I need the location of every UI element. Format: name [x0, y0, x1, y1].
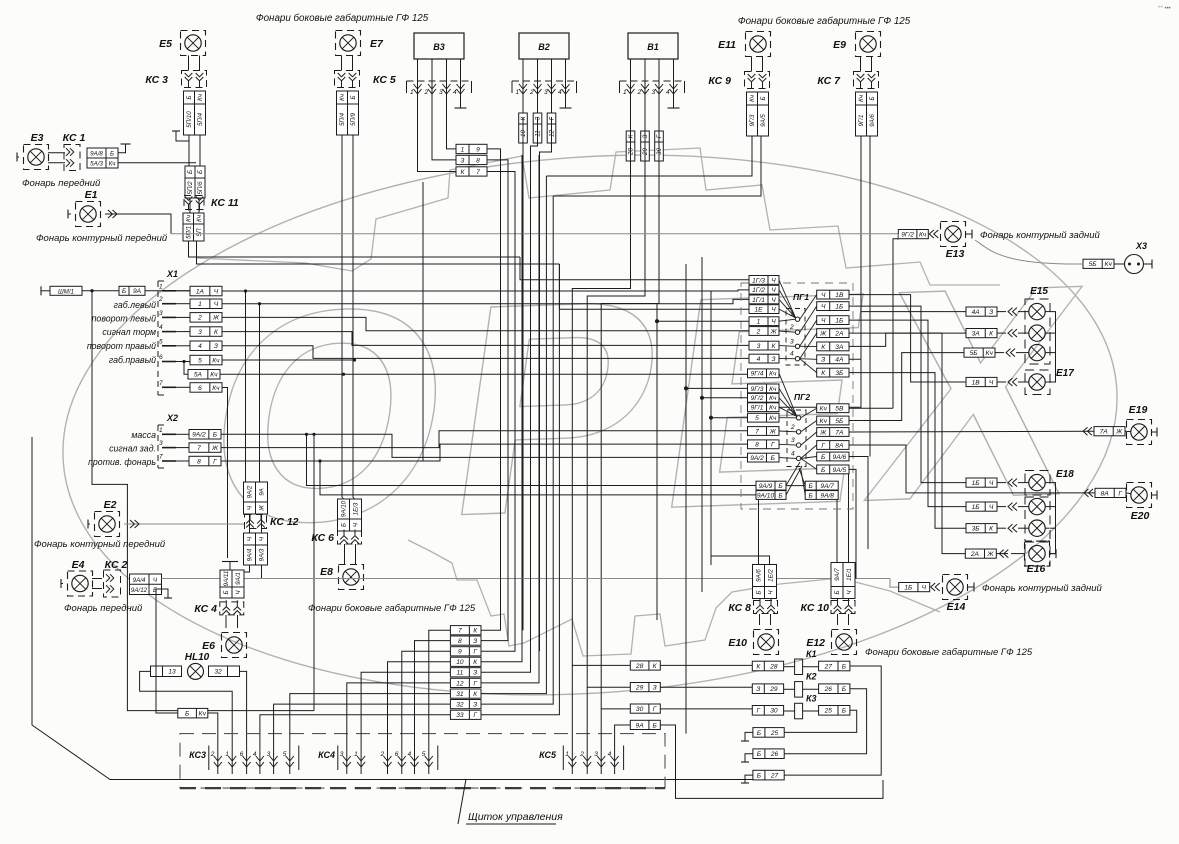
wires KC10 to E12: [838, 614, 849, 625]
dashed enclosure PG relays: [741, 283, 853, 509]
svg-text:3: 3: [594, 751, 598, 758]
svg-text:Б: Б: [185, 711, 190, 718]
svg-text:Е4: Е4: [72, 559, 85, 571]
ground stubs left of B-25 B-26 B-27: [741, 732, 753, 783]
PG2 contact group: [779, 373, 806, 466]
svg-text:2: 2: [790, 424, 795, 431]
label box 12-G under B2: [547, 113, 556, 143]
svg-text:Фонарь контурный задний: Фонарь контурный задний: [980, 230, 1100, 241]
svg-text:Ж: Ж: [212, 315, 220, 322]
svg-text:Фонари боковые габаритные ГФ 1: Фонари боковые габаритные ГФ 125: [865, 647, 1033, 658]
stack box 8-З: [450, 636, 481, 645]
svg-text:1: 1: [354, 751, 358, 758]
svg-text:4: 4: [608, 751, 612, 758]
wire KC9 columns down: [546, 136, 761, 196]
svg-text:Б: Б: [110, 151, 114, 158]
box B-27: [753, 770, 784, 780]
svg-text:32: 32: [456, 701, 464, 708]
X1 box 5A-Kch: [188, 370, 220, 380]
svg-text:Б: Б: [757, 751, 762, 758]
lamp feed 1V-Ch feed wire: [997, 381, 1050, 383]
svg-text:Ж: Ж: [819, 330, 827, 337]
svg-text:Б: Б: [197, 170, 204, 174]
svg-text:2: 2: [789, 324, 794, 331]
svg-text:4А: 4А: [972, 309, 981, 316]
svg-text:9А/10: 9А/10: [341, 500, 348, 517]
svg-text:Кч: Кч: [769, 415, 777, 422]
svg-text:5П/4: 5П/4: [197, 112, 204, 126]
table under KC3: [184, 91, 206, 135]
svg-text:Кч: Кч: [769, 371, 777, 378]
svg-text:КС 9: КС 9: [708, 75, 731, 87]
connector KC8: [728, 599, 777, 614]
svg-text:Б: Б: [834, 590, 841, 594]
svg-text:29: 29: [635, 684, 644, 691]
svg-text:З: З: [473, 638, 477, 645]
svg-text:1: 1: [461, 146, 465, 153]
lamp feed 3B-K feed wire: [997, 527, 1050, 529]
dashed box E18: [1025, 471, 1050, 496]
box Z-29: [752, 684, 783, 694]
svg-text:27: 27: [824, 663, 833, 670]
PG2 left box 9Г/3: [748, 384, 780, 393]
connector pins under B3: [407, 59, 472, 117]
svg-text:9: 9: [458, 649, 462, 656]
svg-text:7: 7: [159, 380, 163, 387]
ground under B2 pin4: [560, 94, 572, 108]
svg-text:3: 3: [757, 343, 761, 350]
bus X1 5AKch long: [220, 373, 748, 376]
svg-text:5: 5: [159, 338, 163, 345]
wires KC4 to E6: [226, 615, 238, 628]
PG2 left box 7: [748, 427, 780, 436]
T-bar above KC4: [222, 562, 238, 571]
box B-26: [753, 749, 784, 759]
watermark text OREH: [189, 221, 1110, 589]
table above KC12: [244, 482, 268, 514]
bus X2 protiv to PG2: [221, 444, 748, 461]
svg-text:8А: 8А: [835, 442, 844, 449]
svg-text:30: 30: [636, 706, 644, 713]
svg-text:3Б: 3Б: [835, 370, 844, 377]
svg-text:Ч: Ч: [771, 287, 776, 294]
table below KC11: [183, 213, 204, 241]
stack box 12-Г: [450, 678, 481, 687]
svg-text:1Б: 1Б: [835, 317, 844, 324]
connector KC4: [194, 600, 243, 615]
svg-text:поворот левый: поворот левый: [92, 314, 156, 324]
svg-text:4: 4: [453, 89, 457, 96]
bus X1 3K to PG1: [222, 332, 749, 346]
box 9A-B: [630, 720, 660, 729]
svg-text:Б: Б: [223, 590, 230, 594]
svg-text:10: 10: [520, 130, 527, 137]
wires stack boxes to pin connectors: [260, 630, 451, 743]
wire ShM to X1: [82, 290, 190, 292]
stack box 11-З: [450, 668, 481, 677]
svg-text:Г: Г: [473, 680, 477, 687]
svg-text:З: З: [771, 356, 775, 363]
HL10 left box 13: [151, 666, 182, 677]
svg-text:10: 10: [456, 659, 464, 666]
lamp feed 3B-K label box: [966, 524, 997, 533]
wire E7 to KC5: [342, 56, 353, 71]
wire K1 out to B-27: [784, 666, 881, 775]
wires B1 pins staircase down: [572, 117, 659, 709]
svg-text:9А: 9А: [133, 288, 142, 295]
lamp E15a: [1029, 303, 1045, 319]
svg-text:28: 28: [635, 663, 644, 670]
ground stub from KC2 table: [162, 589, 169, 598]
PG1 right box 1Б: [817, 302, 849, 311]
lamp feed 1B-Ch lower feed wire: [997, 506, 1050, 508]
svg-text:К2: К2: [806, 672, 817, 682]
connector KC6: [311, 530, 361, 545]
svg-text:ШМ/1: ШМ/1: [58, 288, 74, 295]
wires 28-30 boxes right to K relays: [660, 665, 752, 709]
lamp feed 4A-Z feed wire: [997, 311, 1050, 313]
PG1 left box 1Г/3: [749, 276, 779, 285]
svg-text:28: 28: [769, 663, 778, 670]
label box 28-K under B1: [626, 131, 635, 161]
svg-text:9А/1: 9А/1: [235, 572, 242, 585]
box B-9A7: [805, 481, 838, 490]
bus X1 row2: [222, 299, 749, 482]
svg-text:Е16: Е16: [1027, 563, 1046, 575]
wire E2 right to KC12: [124, 523, 244, 525]
svg-text:Е13: Е13: [946, 248, 965, 260]
svg-text:12: 12: [549, 130, 556, 137]
connector KC3: [145, 71, 206, 88]
svg-text:5: 5: [755, 415, 759, 422]
label box 10-K under B2: [519, 113, 528, 143]
svg-text:Б: Б: [821, 454, 826, 461]
wire E19 link: [1125, 428, 1157, 437]
svg-text:2А: 2А: [970, 551, 980, 558]
svg-text:Ч: Ч: [821, 303, 826, 310]
PG2 left box 8: [748, 440, 780, 449]
wires B3 pins to boxes: [418, 117, 457, 172]
svg-text:Кч: Кч: [820, 406, 828, 413]
table under KC7: [856, 92, 878, 136]
wire KC3 table down: [189, 135, 200, 166]
svg-text:7А: 7А: [1100, 429, 1109, 436]
svg-text:Е20: Е20: [1131, 510, 1150, 522]
svg-text:3: 3: [159, 440, 163, 447]
svg-text:1В: 1В: [972, 379, 981, 386]
svg-text:1Г/2: 1Г/2: [752, 287, 765, 294]
svg-text:7: 7: [197, 445, 201, 452]
PG1 right box 1В: [817, 290, 849, 299]
svg-text:5А/3: 5А/3: [90, 161, 103, 168]
box 9A9-B: [756, 481, 786, 490]
svg-text:9А/5: 9А/5: [760, 114, 767, 127]
lamp feed 3A-K feed wire: [997, 332, 1050, 334]
label box 30-G under B1: [655, 131, 664, 161]
svg-text:Кч: Кч: [196, 214, 203, 222]
svg-text:4А: 4А: [835, 357, 844, 364]
svg-text:3: 3: [340, 751, 344, 758]
svg-text:Е15: Е15: [1030, 286, 1048, 297]
svg-text:1: 1: [159, 283, 163, 290]
X1 box 2-Zh: [190, 313, 222, 323]
wire HL10 left path: [140, 671, 233, 743]
svg-text:Е5: Е5: [159, 38, 172, 50]
junction B-9A7 right: [804, 485, 806, 487]
lamp feed 5B-Kch arrows: [1006, 349, 1015, 357]
svg-text:Е10: Е10: [728, 637, 747, 649]
PG1 left box 1Г/1: [749, 295, 779, 304]
svg-text:11: 11: [535, 130, 542, 136]
svg-text:9А/2: 9А/2: [192, 432, 206, 439]
svg-text:1: 1: [757, 319, 761, 326]
svg-text:З: З: [473, 670, 477, 677]
stack box 32-З: [450, 700, 481, 709]
svg-text:З: З: [535, 116, 542, 120]
svg-text:КС 4: КС 4: [194, 603, 217, 615]
svg-text:КС 8: КС 8: [728, 602, 751, 614]
lamp feed 3A-K arrows: [1008, 329, 1017, 337]
svg-text:2: 2: [158, 296, 163, 303]
svg-text:9А/7: 9А/7: [834, 568, 841, 581]
PG2 right box 5В: [817, 404, 849, 413]
left tall wire from X2 massa: [32, 437, 753, 780]
svg-text:Ч: Ч: [771, 277, 776, 284]
svg-text:9А/8: 9А/8: [90, 151, 103, 158]
X2 box 7-Zh: [189, 443, 221, 453]
wire KC1 top to T-bar: [118, 144, 126, 153]
svg-text:3: 3: [159, 310, 163, 317]
PG1 left box 4: [749, 354, 779, 363]
bus rows to PG1 1G rows: [520, 257, 749, 309]
PG1 right box 3А: [817, 342, 849, 351]
svg-text:5П/2: 5П/2: [187, 181, 194, 195]
svg-text:Б: Б: [809, 492, 814, 499]
svg-text:против. фонарь: против. фонарь: [88, 457, 156, 467]
svg-text:1: 1: [623, 89, 627, 96]
svg-text:1Е/2: 1Е/2: [768, 569, 775, 582]
svg-text:Ж: Ж: [259, 505, 266, 512]
connector KC3 pins: [189, 744, 299, 775]
svg-text:9А/8: 9А/8: [820, 492, 834, 499]
svg-text:К1: К1: [806, 649, 817, 659]
lamp E15b: [1029, 325, 1045, 341]
svg-text:9Г/1: 9Г/1: [858, 115, 865, 127]
connector KC11: [184, 196, 239, 211]
box K-28: [752, 661, 783, 671]
lamp E20: [1127, 483, 1152, 523]
svg-text:Фонарь контурный задний: Фонарь контурный задний: [982, 583, 1102, 594]
wires KC6 to E8: [345, 544, 356, 564]
bus X2 signal zad to PG2: [221, 431, 748, 448]
dashed box Shchitok upravleniya: [180, 734, 665, 789]
svg-text:5: 5: [283, 751, 287, 758]
label box 29-Z under B1: [641, 131, 650, 161]
long gray wire E4 to E14 box: [162, 578, 891, 580]
svg-text:Ж: Ж: [769, 428, 777, 435]
svg-text:Б: Б: [341, 523, 348, 527]
svg-text:8: 8: [476, 157, 480, 164]
right bus E18 group: [1050, 483, 1056, 554]
svg-text:КС 3: КС 3: [145, 74, 168, 86]
svg-text:В1: В1: [647, 42, 659, 52]
wires KC12 to lower table: [250, 514, 262, 533]
svg-text:5П: 5П: [196, 228, 203, 236]
wires E3 to KC1: [48, 153, 65, 163]
PG2 right box 5Б: [817, 416, 849, 425]
svg-text:9А/10: 9А/10: [757, 492, 775, 499]
box 5B-Kch near X3: [1083, 259, 1114, 268]
svg-text:3: 3: [790, 338, 794, 345]
wire E16 feed: [996, 553, 1025, 555]
svg-text:11: 11: [456, 670, 463, 677]
svg-text:Б: Б: [756, 590, 763, 594]
slant links bottom PG2: [786, 462, 805, 495]
X1 box 4-Z: [190, 341, 222, 351]
junction dot protiv branch: [318, 459, 321, 462]
svg-text:сигнал торм: сигнал торм: [102, 327, 156, 337]
connector KC4 pins: [318, 744, 438, 775]
box G-30: [752, 706, 783, 716]
svg-text:1Е/3: 1Е/3: [353, 502, 360, 515]
svg-text:ПГ2: ПГ2: [794, 392, 810, 402]
svg-text:Б: Б: [842, 708, 847, 715]
svg-text:Ч: Ч: [922, 584, 927, 591]
svg-text:Ж: Ж: [986, 551, 994, 558]
svg-text:Е8: Е8: [320, 566, 333, 578]
svg-text:1Е: 1Е: [754, 306, 763, 313]
svg-text:9Г/2: 9Г/2: [901, 231, 914, 238]
wires below KC11 down: [189, 241, 560, 264]
block В3: [414, 33, 464, 59]
svg-text:4: 4: [757, 356, 761, 363]
svg-text:1: 1: [225, 751, 229, 758]
X1 box 5-Kch: [190, 355, 222, 365]
lamp E15c: [1029, 344, 1045, 360]
block В2: [519, 33, 569, 59]
svg-text:КС 12: КС 12: [270, 516, 299, 528]
svg-text:Ч: Ч: [821, 292, 826, 299]
lamp E17: [1029, 374, 1045, 390]
PG1 right box 1Б: [817, 316, 849, 325]
svg-text:1: 1: [159, 427, 163, 434]
svg-text:3Б: 3Б: [972, 526, 981, 533]
label box 3-8: [456, 155, 487, 164]
dashed box E18 pair: [1025, 497, 1050, 541]
svg-text:Г: Г: [821, 442, 825, 449]
connector KC7: [817, 72, 878, 89]
watermark ellipse: [45, 121, 1136, 729]
svg-text:Ж: Ж: [1115, 429, 1123, 436]
svg-text:Е17: Е17: [1056, 368, 1074, 379]
svg-text:5П/10: 5П/10: [186, 111, 193, 128]
dashed box E17: [1025, 370, 1050, 395]
wire gray E13 to X3 curve: [898, 234, 1083, 264]
feeds PG1 row 1-Ch and PG2 rows: [655, 320, 749, 420]
svg-text:Фонари боковые габаритные ГФ 1: Фонари боковые габаритные ГФ 125: [308, 603, 476, 614]
wires below KC12 table: [232, 565, 262, 579]
svg-text:8: 8: [458, 638, 462, 645]
junction dot X1 pin6: [182, 360, 185, 363]
svg-text:30: 30: [770, 708, 778, 715]
wires 28-30 to KC5 pins: [572, 665, 630, 743]
svg-text:9А/3: 9А/3: [259, 548, 266, 561]
label box B-9A: [119, 286, 145, 295]
svg-text:КС 11: КС 11: [211, 197, 239, 209]
PG1 left box 1Е: [749, 305, 779, 314]
svg-text:Щиток управления: Щиток управления: [468, 811, 563, 823]
svg-text:З: З: [642, 134, 649, 138]
X1 box 3-K: [190, 327, 222, 337]
wire 9A-B right down around: [660, 725, 883, 798]
svg-text:9А: 9А: [259, 488, 266, 496]
svg-text:Б: Б: [771, 455, 776, 462]
svg-text:1В: 1В: [835, 292, 844, 299]
table above KC6: [338, 499, 362, 531]
svg-text:Кч: Кч: [858, 94, 865, 102]
svg-text:9А/11: 9А/11: [223, 571, 230, 587]
svg-text:КС 1: КС 1: [63, 132, 86, 144]
svg-text:Е12: Е12: [806, 637, 825, 649]
svg-text:5А: 5А: [194, 372, 203, 379]
wires KC8 table up: [711, 486, 805, 565]
svg-text:КС 10: КС 10: [801, 602, 830, 614]
svg-text:9А/5: 9А/5: [833, 467, 847, 474]
table below KC12: [244, 533, 268, 565]
PG1 left box 2: [749, 327, 779, 336]
bus X2 massa to PG2: [221, 434, 748, 457]
svg-text:З: З: [473, 701, 477, 708]
stub left of E5 table: [176, 131, 189, 141]
lamp feed 1V-Ch label box: [966, 377, 997, 386]
svg-text:25: 25: [824, 708, 833, 715]
svg-text:сигнал зад.: сигнал зад.: [109, 444, 156, 454]
svg-text:Кч: Кч: [212, 385, 220, 392]
PG2 right box 8А: [817, 441, 849, 450]
svg-text:Е19: Е19: [1129, 404, 1148, 416]
svg-text:Фонари боковые габаритные ГФ 1: Фонари боковые габаритные ГФ 125: [256, 13, 429, 24]
junction dot massa branch: [305, 433, 308, 436]
ground under B3 pin4: [455, 94, 467, 108]
table above KC11: [185, 166, 205, 198]
PG1 right box 4А: [817, 355, 849, 364]
svg-text:Ч: Ч: [771, 319, 776, 326]
svg-text:КС3: КС3: [189, 750, 206, 760]
block В1: [628, 33, 678, 59]
lamp E18b: [1029, 498, 1045, 514]
svg-text:6: 6: [198, 385, 202, 392]
svg-text:Б: Б: [869, 96, 876, 100]
svg-text:26: 26: [770, 751, 779, 758]
svg-text:Фонарь контурный передний: Фонарь контурный передний: [34, 539, 166, 550]
svg-text:Е14: Е14: [947, 601, 966, 613]
svg-text:Г: Г: [1118, 490, 1122, 497]
svg-text:В3: В3: [433, 42, 445, 52]
svg-text:Фонарь контурный передний: Фонарь контурный передний: [36, 233, 168, 244]
PG2 left box 5: [748, 413, 780, 422]
svg-text:1Б: 1Б: [835, 303, 844, 310]
PG1 left box 3: [749, 341, 779, 350]
PG2 right box 7А: [817, 428, 849, 437]
lamp E14: [943, 575, 968, 614]
PG1 contact group: [779, 280, 805, 365]
svg-text:Е2: Е2: [104, 499, 117, 511]
svg-text:5П/6: 5П/6: [197, 181, 204, 195]
svg-text:29: 29: [769, 686, 778, 693]
svg-text:5: 5: [198, 357, 202, 364]
lamp E4: [68, 559, 93, 596]
svg-text:Х2: Х2: [166, 413, 178, 423]
